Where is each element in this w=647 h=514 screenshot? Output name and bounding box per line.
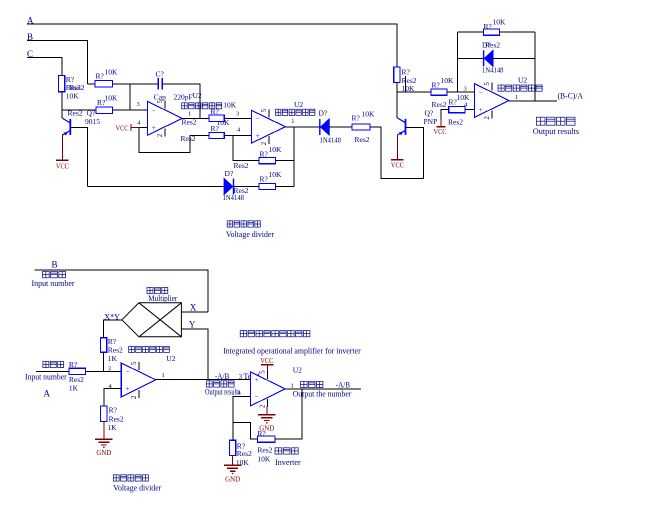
pin 3 (op-amp2) xyxy=(236,110,239,117)
wire D3 to R5 xyxy=(234,186,260,188)
svg-text:3: 3 xyxy=(236,110,239,117)
svg-text:-A/B: -A/B xyxy=(215,372,229,381)
diode D2 1N4148 xyxy=(320,119,329,135)
svg-text:Integrated operational amplifi: Integrated operational amplifier for inv… xyxy=(223,346,361,355)
label 10K (R1) xyxy=(105,67,119,76)
svg-text:GND: GND xyxy=(96,448,112,457)
resistor R3a 10K xyxy=(431,89,447,95)
label D? Res2 (Dfb) xyxy=(482,41,500,50)
svg-text:10K: 10K xyxy=(66,92,80,101)
svg-text:+: + xyxy=(152,124,156,132)
wire net A xyxy=(27,24,397,67)
node A xyxy=(27,15,34,25)
label 1N4148 (Dfb) xyxy=(482,66,504,75)
svg-text:D?: D? xyxy=(319,108,328,117)
ground GND3 op-amp5 xyxy=(258,407,276,433)
wire op-amp4 out xyxy=(156,379,251,381)
pin 4 (op-amp1) xyxy=(137,119,141,126)
wire junction to R3a xyxy=(397,91,431,93)
op-amp U5 xyxy=(250,370,285,408)
svg-text:10K: 10K xyxy=(105,93,119,102)
op-amp U2 second xyxy=(251,108,285,145)
label 10K (Rst2) xyxy=(362,109,376,118)
wire op-amp2 out xyxy=(285,126,320,128)
svg-text:2: 2 xyxy=(261,141,268,145)
wire R5 to vertical xyxy=(276,186,295,188)
resistor Rf 10K xyxy=(257,436,275,442)
label 1K (RB) xyxy=(107,423,117,432)
svg-text:1: 1 xyxy=(162,372,165,379)
label Res2 (R4) xyxy=(234,161,249,170)
svg-text:Res2: Res2 xyxy=(237,449,252,458)
label Res2 (R6) xyxy=(181,134,196,143)
svg-text:10K: 10K xyxy=(493,17,507,26)
resistor Rp4 10K xyxy=(449,106,465,112)
pin 4 (op-amp4) xyxy=(109,383,113,390)
label CJK voltage divider bottom xyxy=(113,475,148,481)
label 10K (R4) xyxy=(269,145,283,154)
wire R3a to op-amp3 xyxy=(447,91,474,93)
label CJK multiplier xyxy=(147,287,168,293)
svg-text:5: 5 xyxy=(131,361,138,365)
wire fb right vertical xyxy=(534,32,536,101)
label R? (R3) xyxy=(211,107,220,116)
svg-text:U2: U2 xyxy=(293,365,302,374)
pin 1 (op-amp3) xyxy=(515,94,518,101)
label 1K (Rm) xyxy=(108,354,118,363)
label CJK output results top xyxy=(536,117,575,125)
pin 3 (op-amp4) xyxy=(108,365,111,372)
svg-text:Y: Y xyxy=(189,319,196,329)
node B xyxy=(27,32,33,42)
resistor R? 10K (C branch) xyxy=(58,75,64,91)
label D? (D2) xyxy=(319,108,328,117)
svg-text:1N4148: 1N4148 xyxy=(320,135,342,144)
wire bottom to D3 xyxy=(88,186,225,188)
svg-text:Res2: Res2 xyxy=(485,41,500,50)
svg-text:1K: 1K xyxy=(108,354,118,363)
pin 1 (op-amp4) xyxy=(162,372,165,379)
svg-text:Res2: Res2 xyxy=(68,109,83,118)
label 10K (R3) xyxy=(223,101,237,110)
label 10K (Rfb) xyxy=(493,17,507,26)
label Y xyxy=(189,319,196,329)
svg-text:Output results: Output results xyxy=(205,387,241,396)
svg-text:3: 3 xyxy=(239,373,243,381)
label R? (Rfb) xyxy=(484,22,493,31)
label 1K (RA) xyxy=(69,383,79,392)
label Cap xyxy=(154,93,166,102)
pin 4 (op-amp3) xyxy=(464,101,468,108)
label D? (D3) xyxy=(225,169,234,178)
transistor Q1 9015 xyxy=(62,118,70,136)
svg-text:1K: 1K xyxy=(69,383,79,392)
label Res2 (Rf) xyxy=(257,445,272,454)
label R? (R6) xyxy=(211,124,220,133)
label U2 (op-amp1) xyxy=(193,91,202,100)
label CJK input number B xyxy=(42,272,65,278)
resistor Rfb 10K xyxy=(484,29,500,35)
power VCC at op-amp1 pin4 xyxy=(116,123,141,132)
svg-text:10K: 10K xyxy=(402,84,416,93)
wire Q1 base xyxy=(70,127,87,186)
label 10K (Rg) xyxy=(236,458,250,467)
pin 4 (op-amp2) xyxy=(237,126,241,133)
label R? (R4) xyxy=(260,149,269,158)
svg-text:5: 5 xyxy=(484,82,491,86)
label Multiplier xyxy=(148,294,177,303)
svg-text:R?: R? xyxy=(260,149,269,158)
power VCC under Q1 xyxy=(56,135,69,170)
label 9015 (Q1) xyxy=(85,117,100,126)
svg-text:1: 1 xyxy=(291,118,294,125)
resistor R2 10K xyxy=(96,107,113,113)
resistor R? 10K (A branch) xyxy=(394,67,400,83)
svg-text:1N4148: 1N4148 xyxy=(482,66,504,75)
label 10K (R3a) xyxy=(441,76,455,85)
wire Rm down xyxy=(103,352,105,371)
label CJK op-amp3 xyxy=(498,85,542,91)
svg-text:+: + xyxy=(126,385,130,393)
svg-text:3: 3 xyxy=(464,85,467,92)
wire RA to op-amp4 xyxy=(85,371,121,373)
power VCC above op-amp5 xyxy=(260,356,273,371)
svg-text:Input number: Input number xyxy=(32,279,75,288)
svg-text:9015: 9015 xyxy=(85,117,100,126)
label Res2 (R2) xyxy=(68,109,83,118)
wire op-amp5 out xyxy=(285,388,361,390)
label -A/B mid xyxy=(215,372,229,381)
svg-text:Output results: Output results xyxy=(533,127,579,136)
svg-text:PNP: PNP xyxy=(424,117,438,126)
svg-text:2: 2 xyxy=(131,395,138,399)
label Res2 (R5) xyxy=(234,186,249,195)
label C? xyxy=(156,69,165,78)
svg-text:10K: 10K xyxy=(105,67,119,76)
svg-text:R?: R? xyxy=(211,107,220,116)
label R? (Rp4) xyxy=(449,98,458,107)
svg-text:2: 2 xyxy=(157,133,164,137)
label 10K (Rf) xyxy=(257,454,271,463)
svg-text:-A/B: -A/B xyxy=(336,380,350,389)
wire R2 to op-amp1 xyxy=(113,109,148,111)
svg-text:1: 1 xyxy=(515,94,518,101)
wire out2 feedback vertical xyxy=(293,127,295,187)
label R? (Rg) xyxy=(237,441,246,450)
svg-text:Res2: Res2 xyxy=(257,445,272,454)
label Res2 (RB) xyxy=(109,415,124,424)
wire Rp4 to VCC xyxy=(441,110,449,120)
svg-text:R?: R? xyxy=(96,72,105,81)
resistor R1 10K xyxy=(95,81,113,87)
svg-text:10K: 10K xyxy=(441,76,455,85)
wire net B xyxy=(27,41,88,84)
resistor R6 10K xyxy=(209,132,224,138)
power VCC under Q2 xyxy=(391,135,404,169)
label CJK output number xyxy=(301,381,323,387)
pin 3 (op-amp3) xyxy=(464,85,467,92)
svg-text:R?: R? xyxy=(257,429,266,438)
node A bottom xyxy=(44,389,51,399)
svg-text:−: − xyxy=(126,368,130,376)
svg-text:+: + xyxy=(255,376,259,384)
svg-text:C?: C? xyxy=(156,69,165,78)
wire R3 to op-amp2 xyxy=(224,117,251,119)
svg-text:5: 5 xyxy=(259,370,266,374)
wire input A xyxy=(36,371,69,373)
wire C branch down xyxy=(61,93,63,118)
label X xyxy=(190,302,197,312)
resistor Rg 10K xyxy=(229,440,235,455)
svg-text:1: 1 xyxy=(188,110,191,117)
svg-text:+: + xyxy=(479,106,483,114)
wire B to R1 xyxy=(88,83,96,85)
label Inverter xyxy=(275,458,301,467)
wire X pin xyxy=(181,311,207,313)
label U2 (op-amp3) xyxy=(518,75,527,84)
svg-text:GND: GND xyxy=(225,474,241,483)
label U2 (op-amp5) xyxy=(293,365,302,374)
svg-text:−: − xyxy=(255,393,259,401)
svg-text:5: 5 xyxy=(157,99,164,103)
wire cap to output xyxy=(162,84,200,119)
diode Dfb 1N4148 xyxy=(484,50,493,66)
svg-text:Res2: Res2 xyxy=(234,161,249,170)
label R? (C branch) xyxy=(66,75,75,84)
svg-text:Multiplier: Multiplier xyxy=(148,294,177,303)
label CJK voltage divider top xyxy=(227,221,260,227)
wire A branch down xyxy=(396,83,398,119)
label 1N4148 (D2) xyxy=(320,135,342,144)
svg-text:1: 1 xyxy=(291,382,294,389)
label R? (Rm) xyxy=(108,337,117,346)
svg-text:A: A xyxy=(44,389,51,399)
label Res2 (Rg) xyxy=(237,449,252,458)
svg-text:10K: 10K xyxy=(223,101,237,110)
resistor R4 10K xyxy=(259,157,276,163)
label U2 (op-amp2) xyxy=(294,100,303,109)
wire VCC to pin4 xyxy=(140,126,147,128)
svg-text:B: B xyxy=(52,259,58,269)
wire pin4 net down xyxy=(139,127,209,152)
transistor Q2 PNP xyxy=(397,118,405,135)
svg-text:2: 2 xyxy=(484,116,491,120)
svg-text:Res2: Res2 xyxy=(70,83,85,92)
svg-text:U2: U2 xyxy=(193,91,202,100)
svg-text:(B-C)/A: (B-C)/A xyxy=(558,92,584,101)
label Q? (Q2) xyxy=(425,109,434,118)
label CJK op-amp2 xyxy=(276,109,315,115)
wire net C xyxy=(27,58,62,76)
pin 1 (op-amp5) xyxy=(291,382,294,389)
wire Y pin xyxy=(181,329,207,380)
svg-text:−: − xyxy=(152,107,156,115)
svg-text:X: X xyxy=(190,302,197,312)
wire op-amp1 out xyxy=(182,117,209,119)
multiplier box xyxy=(122,303,181,337)
wire R4 right xyxy=(276,160,295,162)
svg-text:VCC: VCC xyxy=(260,356,273,365)
label 10K (R6) xyxy=(217,118,231,127)
ground GND2 xyxy=(224,456,242,484)
label CJK inverter xyxy=(275,448,298,454)
wire XY out xyxy=(104,320,122,338)
label Output the number xyxy=(293,389,352,398)
svg-text:D?: D? xyxy=(225,169,234,178)
svg-text:VCC: VCC xyxy=(391,160,404,169)
label Res2 (Rm) xyxy=(108,346,123,355)
wire fb left vertical xyxy=(457,32,459,92)
label Integrated title xyxy=(223,346,361,355)
label 10K (R2) xyxy=(105,93,119,102)
op-amp U4 xyxy=(121,361,156,399)
wire fb top right xyxy=(499,31,535,33)
label R? (Rst2) xyxy=(352,114,361,123)
svg-text:220pF: 220pF xyxy=(174,93,193,102)
label 10K (Rp4) xyxy=(457,93,471,102)
capacitor C? 220pF xyxy=(158,78,162,90)
svg-text:3: 3 xyxy=(137,101,140,108)
wire fb branch xyxy=(233,423,258,439)
op-amp U3 xyxy=(474,82,509,120)
op-amp U1 xyxy=(147,99,182,137)
svg-text:Voltage divider: Voltage divider xyxy=(113,484,161,493)
svg-text:−: − xyxy=(479,89,483,97)
svg-text:VCC: VCC xyxy=(56,161,69,170)
wire fb diode right xyxy=(493,57,535,59)
wire net B bottom xyxy=(35,270,208,312)
svg-text:+: + xyxy=(256,132,260,140)
label CJK input number A xyxy=(43,361,64,367)
pin 3 (op-amp1) xyxy=(137,101,140,108)
wire fb top left xyxy=(458,31,484,33)
label Res2 (op-amp1) xyxy=(182,117,197,126)
label R? (R1) xyxy=(96,72,105,81)
label Input number B xyxy=(32,279,75,288)
svg-text:U2: U2 xyxy=(294,100,303,109)
label X*Y xyxy=(104,312,120,321)
label U2 (op-amp4) xyxy=(166,354,175,363)
svg-text:Res2: Res2 xyxy=(234,186,249,195)
label CJK op-amp1 xyxy=(182,103,222,109)
label CJK op-amp4 xyxy=(129,346,170,352)
label -A/B out xyxy=(336,380,350,389)
svg-text:R?: R? xyxy=(260,174,269,183)
svg-text:R?: R? xyxy=(109,405,118,414)
resistor RB 1K xyxy=(101,406,107,422)
wire fb diode left xyxy=(458,57,484,59)
ground GND1 xyxy=(95,422,113,458)
label R? (RA) xyxy=(69,360,78,369)
wire R6 to op-amp2 pin4 xyxy=(224,135,251,137)
svg-text:10K: 10K xyxy=(257,454,271,463)
svg-text:Res2: Res2 xyxy=(432,100,447,109)
label R? (R5) xyxy=(260,174,269,183)
svg-text:R?: R? xyxy=(108,337,117,346)
label 10K (R5) xyxy=(269,170,283,179)
svg-text:Voltage divider: Voltage divider xyxy=(226,230,274,239)
label Res2 overlap (C branch) xyxy=(66,83,85,92)
svg-text:Res2: Res2 xyxy=(448,118,463,127)
svg-text:5: 5 xyxy=(261,108,268,112)
resistor R3 10K xyxy=(209,115,224,121)
node B bottom xyxy=(52,259,58,269)
pin 1 (op-amp1) xyxy=(188,110,191,117)
resistor R5 10K xyxy=(259,183,276,189)
svg-text:10K: 10K xyxy=(269,145,283,154)
label R? (RB) xyxy=(109,405,118,414)
svg-text:−: − xyxy=(256,115,260,123)
svg-text:Inverter: Inverter xyxy=(275,458,301,467)
label CJK output results mid xyxy=(206,381,234,387)
svg-text:Res2: Res2 xyxy=(355,135,370,144)
label R? (Rf) xyxy=(257,429,266,438)
diode D3 1N4148 xyxy=(224,179,233,195)
svg-text:VCC: VCC xyxy=(116,123,129,132)
wire D2 to Rst2 xyxy=(329,126,352,128)
label Res2 (R3a) xyxy=(432,100,447,109)
label 10K (C branch) xyxy=(66,92,80,101)
wire node to cap xyxy=(130,83,158,85)
label PNP (Q2) xyxy=(424,117,438,126)
node C xyxy=(27,49,33,59)
wire Rf to out xyxy=(275,389,302,439)
label 220pF xyxy=(174,93,193,102)
label Voltage divider bottom xyxy=(113,484,161,493)
label R? (R3a) xyxy=(432,81,441,90)
svg-text:R?: R? xyxy=(484,22,493,31)
wire Rst2 loop to Q2 base xyxy=(370,127,424,178)
svg-text:2: 2 xyxy=(259,404,266,408)
pin 4 (op-amp5) xyxy=(238,389,242,396)
svg-text:Res2: Res2 xyxy=(181,134,196,143)
svg-text:10K: 10K xyxy=(362,109,376,118)
wire op-amp3 output xyxy=(509,100,557,102)
svg-text:3: 3 xyxy=(108,365,111,372)
label Res2 (A branch) xyxy=(402,76,417,85)
svg-text:R?: R? xyxy=(69,360,78,369)
svg-text:U2: U2 xyxy=(518,75,527,84)
svg-text:1K: 1K xyxy=(107,423,117,432)
label Q? (Q1) xyxy=(87,109,96,118)
label Res2 (RA) xyxy=(69,375,84,384)
label Voltage divider top xyxy=(226,230,274,239)
label 10K (A branch) xyxy=(402,84,416,93)
label (B-C)/A xyxy=(558,92,584,101)
resistor Rm 1K xyxy=(100,338,106,353)
pin 1 (op-amp2) xyxy=(291,118,294,125)
wire op-amp5 pin4 xyxy=(233,397,251,441)
label 3 Test1 xyxy=(239,372,261,381)
label 1N4148 (D3) xyxy=(223,193,245,202)
wire op-amp4 pin4 xyxy=(104,389,121,406)
resistor Rst2 10K xyxy=(352,124,370,130)
label Output results top xyxy=(533,127,579,136)
svg-text:VCC: VCC xyxy=(434,127,447,136)
label Res2 (Rp4) xyxy=(448,118,463,127)
label Output results mid xyxy=(205,387,241,396)
wire R4 left to pin4 xyxy=(233,136,259,161)
wire pin4 stub op-amp3 xyxy=(465,109,474,111)
label CJK inverter opamp title xyxy=(240,331,310,337)
wire R1 to node xyxy=(113,84,131,110)
power VCC at op-amp3 pin4 xyxy=(434,120,447,137)
wire C node to R2 xyxy=(62,109,96,111)
svg-text:R?: R? xyxy=(352,114,361,123)
svg-text:R?: R? xyxy=(432,81,441,90)
svg-text:Input number: Input number xyxy=(25,372,67,381)
label Res2 (Rst2) xyxy=(355,135,370,144)
